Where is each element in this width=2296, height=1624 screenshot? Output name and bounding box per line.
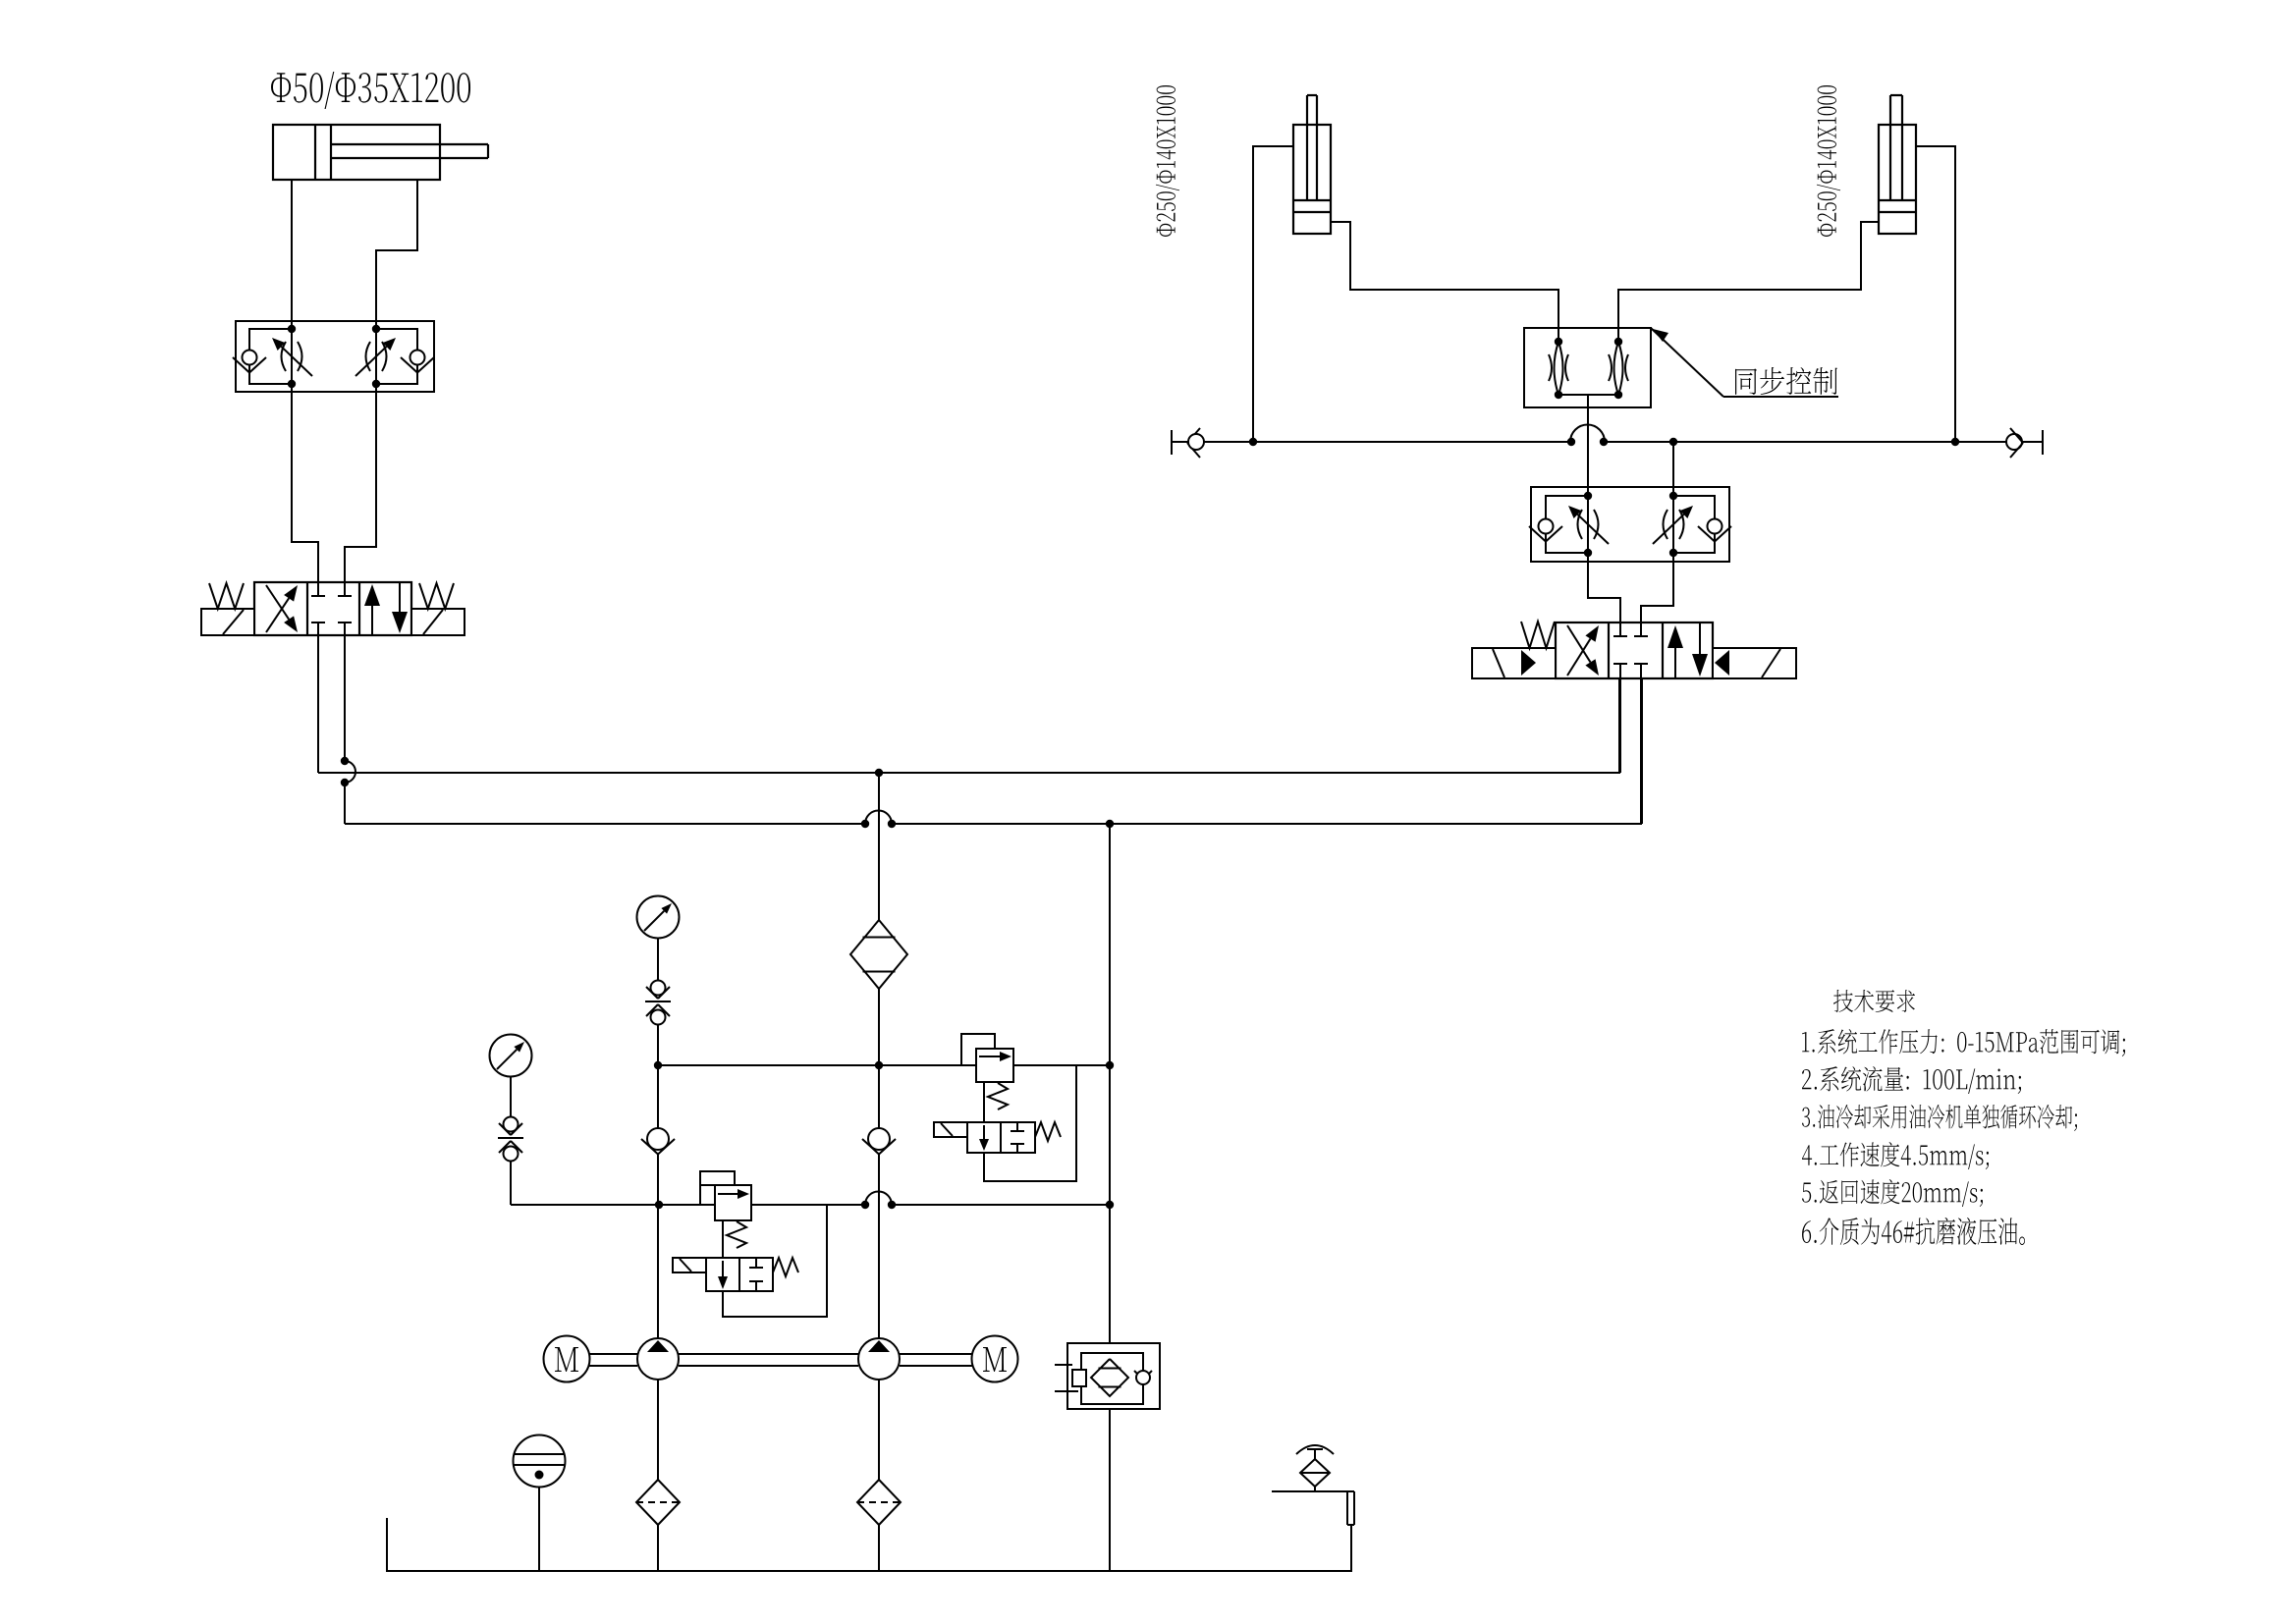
- spring V1 left: [209, 583, 244, 609]
- leader line to 同步控制: [1651, 328, 1838, 397]
- wire CY3 rod-side to bus: [1916, 146, 1955, 442]
- cylinder CY2 (φ250/φ140X1000 left): [1293, 95, 1331, 234]
- wire V3 right unit to valve V1 port B: [345, 384, 376, 582]
- breather tab: [1347, 1491, 1354, 1525]
- label 同步控制: [1735, 367, 1837, 395]
- gauge G1 pressure gauge: [637, 896, 680, 982]
- isolator G2 shutoff: [498, 1117, 523, 1206]
- wire filter F1 to line3: [878, 989, 880, 1128]
- label requirement 1: [1802, 1029, 2125, 1056]
- pump P1: [637, 1338, 679, 1380]
- node line1 filter junction: [875, 769, 883, 777]
- label cylinder CY1 value φ50/φ35X1200: [271, 72, 470, 109]
- wire pump2 pressure column upper: [878, 773, 880, 921]
- wire V4 right to valve V2 port B: [1641, 553, 1673, 623]
- wire line3: [658, 1064, 1110, 1066]
- relief valve RV2 main: [976, 1049, 1013, 1082]
- wire CY1 rod-side port to flow-control V3 left unit: [291, 180, 293, 329]
- flow divider U1 (同步控制): [1524, 328, 1651, 407]
- check valve CV2 pump2: [862, 1128, 896, 1338]
- node line3 x895: [875, 1061, 883, 1069]
- wire line4 pump delivery line: [511, 1192, 1110, 1206]
- solenoid SV1 coil: [673, 1258, 706, 1272]
- wire bus to flow-control V4 right unit: [1672, 442, 1674, 496]
- node V4 ports: [1584, 492, 1677, 557]
- label cylinder CY2 value φ250/φ140X1000: [1156, 85, 1179, 237]
- wire V2 port P to line1: [1619, 678, 1621, 773]
- wire line2 to cooler: [1109, 824, 1111, 1343]
- valve V1 4/3 solenoid directional valve body: [254, 582, 411, 635]
- node bus junctions: [1249, 438, 1959, 446]
- label requirement 2: [1802, 1066, 2021, 1094]
- node line4 junctions: [655, 1201, 1114, 1209]
- node V3 ports: [288, 325, 380, 388]
- spring RV1: [727, 1221, 746, 1248]
- spring RV2: [988, 1083, 1008, 1110]
- pilot bus line with check ends: [1172, 425, 2043, 458]
- wire pump1 suction: [657, 1380, 659, 1480]
- wire line1 (V1-P to V2-P): [318, 678, 1619, 773]
- spring SV1: [773, 1258, 798, 1276]
- check valve CV1 pump1: [641, 1128, 675, 1338]
- wire SV1 return loop: [723, 1205, 827, 1317]
- breather AB1: [1296, 1445, 1334, 1491]
- solenoid V1 right: [411, 609, 465, 635]
- strainer S2: [857, 1480, 901, 1525]
- wire divider to flow-control V4 left unit: [1587, 407, 1589, 496]
- node line2 junctions: [861, 820, 1114, 828]
- solenoid V2 right: [1713, 648, 1796, 678]
- label requirement 5: [1802, 1179, 1983, 1207]
- shaft M1-P1: [589, 1354, 637, 1366]
- filter F1 pressure filter: [850, 920, 907, 989]
- wire cooler to tank: [1109, 1409, 1111, 1571]
- solenoid V2 left: [1472, 648, 1556, 678]
- wire CY1 piston-side port to flow-control V3 right unit: [376, 180, 417, 329]
- relief valve RV1 main: [715, 1185, 751, 1220]
- dual throttle-check valve block V3: [233, 321, 434, 392]
- shaft P1-P2: [679, 1354, 858, 1366]
- wire V2 port T to line2: [1640, 678, 1642, 824]
- solenoid SV2 coil: [934, 1122, 967, 1137]
- wire RV2 to solenoid valve SV2: [983, 1082, 985, 1122]
- node line4 end: [0, 0, 1, 1]
- label requirement 3: [1802, 1105, 2077, 1131]
- solenoid valve SV2 2/2: [967, 1122, 1035, 1153]
- wire CY2 piston-side to flow divider left: [1331, 222, 1558, 342]
- motor M1: [544, 1336, 590, 1382]
- wire CY2 rod-side to bus: [1253, 146, 1293, 442]
- solenoid V1 left: [201, 609, 254, 635]
- pump P2: [858, 1338, 900, 1380]
- pilot box relief RV2: [961, 1034, 995, 1065]
- strainer S1: [636, 1480, 680, 1525]
- wire strainer S2 to tank: [878, 1525, 880, 1571]
- wire V1 port T to line2 (with crossover hop): [345, 635, 355, 824]
- wire V3 left unit to valve V1 port A: [292, 384, 318, 582]
- label requirement 6: [1802, 1218, 2025, 1245]
- node flow divider ports: [1555, 338, 1622, 399]
- wire line2 (V1-T to V2-T) with hop over filter column: [345, 678, 1642, 824]
- valve V2 4/3 solenoid directional valve body: [1556, 623, 1713, 678]
- spring V2 left: [1521, 622, 1555, 648]
- spring V1 right: [419, 583, 454, 609]
- label 技术要求 title: [1833, 990, 1915, 1012]
- gauge G2 pressure gauge: [490, 1035, 532, 1118]
- shaft P2-M2: [900, 1354, 972, 1366]
- wire V1 port P to line1: [317, 635, 319, 773]
- motor M2: [972, 1336, 1018, 1382]
- wire RV1 to solenoid valve SV1: [722, 1220, 724, 1258]
- cylinder CY1 (φ50/φ35X1200): [273, 125, 488, 180]
- level gauge LG1: [514, 1435, 566, 1572]
- isolator G1 shutoff: [645, 981, 671, 1129]
- label requirement 4: [1802, 1142, 1989, 1169]
- cylinder CY3 (φ250/φ140X1000 right): [1879, 95, 1916, 234]
- wire pump2 suction: [878, 1380, 880, 1480]
- oil cooler HX1 with bypass check and pressure switch: [1055, 1343, 1160, 1409]
- spring SV2: [1035, 1122, 1061, 1141]
- wire strainer S1 to tank: [657, 1525, 659, 1571]
- label cylinder CY3 value φ250/φ140X1000: [1817, 85, 1840, 237]
- dual throttle-check valve block V4: [1529, 487, 1731, 562]
- pilot box relief RV1: [700, 1171, 735, 1205]
- node hop line1: [341, 757, 349, 786]
- breather line: [1272, 1490, 1354, 1492]
- solenoid valve SV1 2/2: [706, 1258, 773, 1291]
- tank line: [387, 1518, 1351, 1571]
- wire V4 left to valve V2 port A: [1588, 553, 1620, 623]
- wire SV2 return loop: [984, 1065, 1076, 1181]
- node line3 junctions: [654, 1061, 1114, 1069]
- wire CY3 piston-side to flow divider right: [1618, 222, 1879, 342]
